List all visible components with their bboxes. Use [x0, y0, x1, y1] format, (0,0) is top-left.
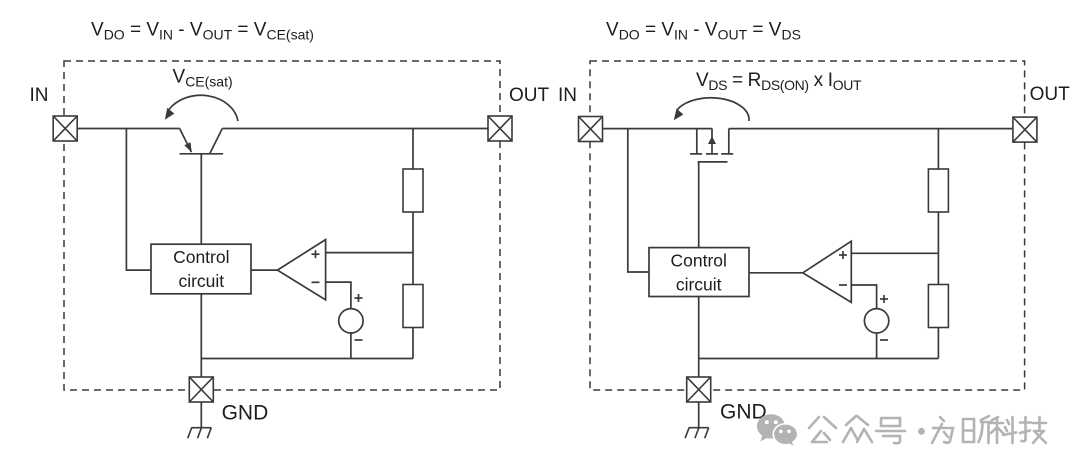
svg-text:VDO = VIN - VOUT = VCE(sat): VDO = VIN - VOUT = VCE(sat) — [91, 20, 314, 43]
svg-text:VDO = VIN - VOUT = VDS: VDO = VIN - VOUT = VDS — [606, 20, 801, 43]
svg-text:VDS = RDS(ON) x IOUT: VDS = RDS(ON) x IOUT — [696, 70, 862, 93]
svg-text:GND: GND — [222, 402, 269, 425]
svg-text:IN: IN — [558, 85, 577, 106]
svg-text:Control: Control — [173, 247, 229, 267]
svg-text:OUT: OUT — [509, 85, 550, 106]
svg-text:OUT: OUT — [1030, 84, 1071, 105]
svg-text:VCE(sat): VCE(sat) — [173, 67, 233, 90]
svg-text:IN: IN — [30, 85, 49, 106]
svg-text:Control: Control — [670, 251, 726, 271]
svg-text:circuit: circuit — [676, 275, 722, 295]
svg-text:circuit: circuit — [178, 271, 224, 291]
